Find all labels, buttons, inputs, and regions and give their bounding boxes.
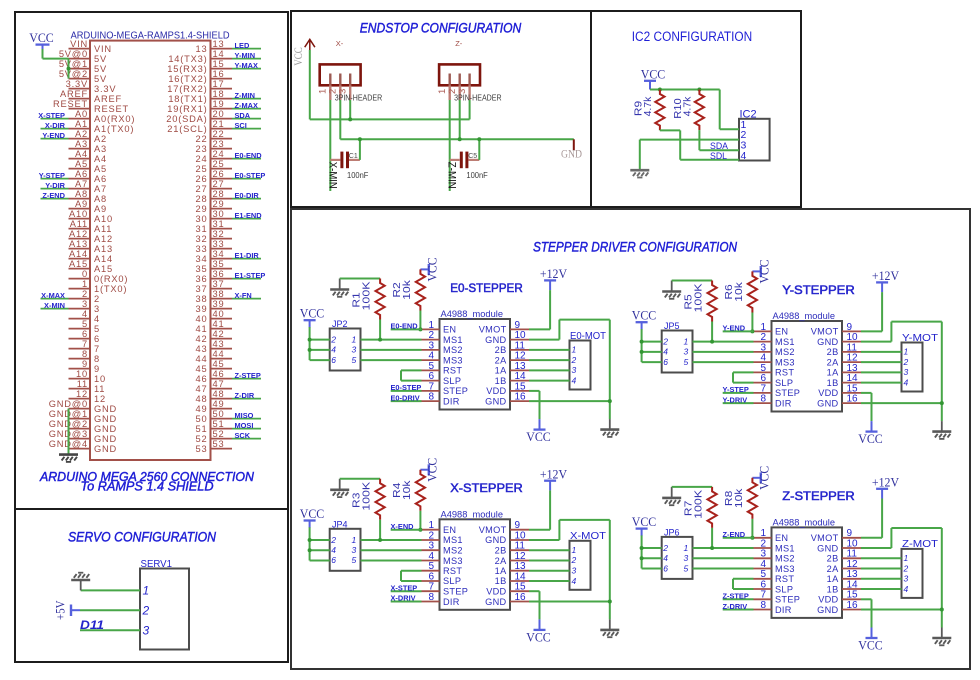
svg-text:1A: 1A bbox=[827, 574, 839, 584]
svg-text:GND: GND bbox=[485, 597, 506, 607]
svg-text:14: 14 bbox=[213, 49, 225, 59]
wire VCC to JP5 pin 4 bbox=[642, 351, 662, 353]
net label Y-STEP wire bbox=[723, 392, 754, 394]
svg-text:5V@2: 5V@2 bbox=[59, 69, 88, 79]
svg-text:MS2: MS2 bbox=[775, 554, 795, 564]
net label Z-END wire bbox=[723, 537, 754, 539]
svg-text:D11: D11 bbox=[80, 620, 104, 632]
pin 11 2B (Z-STEPPER) bbox=[842, 557, 861, 559]
svg-text:Y-MOT: Y-MOT bbox=[902, 333, 938, 344]
svg-text:VCC: VCC bbox=[526, 430, 551, 444]
pin 40 (right row 27) bbox=[211, 318, 233, 320]
svg-text:JP6: JP6 bbox=[664, 528, 680, 538]
wire pin14 to E0-MOT pin4 bbox=[529, 380, 570, 382]
svg-text:VCC: VCC bbox=[300, 307, 325, 321]
svg-text:34: 34 bbox=[213, 249, 225, 259]
svg-text:E0-STEP: E0-STEP bbox=[235, 171, 266, 180]
svg-text:A0: A0 bbox=[75, 109, 88, 119]
svg-text:E1-DIR: E1-DIR bbox=[235, 251, 260, 260]
wire JP4 pin 5 to MS3 bbox=[361, 560, 422, 562]
pin GND@1 (left row 37) bbox=[69, 418, 91, 420]
svg-text:A11: A11 bbox=[94, 224, 112, 234]
svg-text:25: 25 bbox=[196, 164, 208, 174]
svg-text:DIR: DIR bbox=[443, 396, 460, 406]
svg-text:52: 52 bbox=[196, 434, 208, 444]
svg-text:1B: 1B bbox=[495, 376, 507, 386]
svg-text:LED: LED bbox=[235, 41, 250, 50]
svg-text:11: 11 bbox=[94, 384, 105, 394]
wire pin12 to Z-MOT pin2 bbox=[861, 568, 902, 570]
net label Y-DIR wire bbox=[41, 188, 69, 190]
svg-text:11: 11 bbox=[77, 379, 88, 389]
pin 46 (right row 33) bbox=[211, 378, 233, 380]
svg-text:4: 4 bbox=[94, 314, 100, 324]
svg-text:5V: 5V bbox=[94, 54, 107, 64]
svg-text:VCC: VCC bbox=[858, 638, 883, 652]
svg-text:22: 22 bbox=[213, 129, 225, 139]
wire pin14 to Y-MOT pin4 bbox=[861, 382, 902, 384]
svg-text:35: 35 bbox=[196, 264, 208, 274]
svg-text:23: 23 bbox=[196, 144, 208, 154]
svg-text:GND: GND bbox=[817, 605, 838, 615]
wire VCC to JP5 pin 6 bbox=[642, 361, 662, 363]
svg-text:30: 30 bbox=[213, 209, 225, 219]
supply VCC above R2 bbox=[420, 264, 428, 275]
pin 14 1B (Z-STEPPER) bbox=[842, 588, 861, 590]
svg-text:A10: A10 bbox=[69, 209, 88, 219]
svg-text:53: 53 bbox=[196, 444, 208, 454]
svg-text:4: 4 bbox=[904, 377, 909, 387]
pin A3 (left row 10) bbox=[69, 148, 91, 150]
svg-text:34: 34 bbox=[196, 254, 208, 264]
wire +12V to VMOT bbox=[549, 290, 551, 329]
svg-text:A1: A1 bbox=[75, 119, 88, 129]
wire C1 right plate to GND net bbox=[359, 139, 361, 160]
svg-text:30: 30 bbox=[196, 214, 208, 224]
wire R10 to IC2 pin3 SDA bbox=[698, 130, 700, 150]
resistor R10 bbox=[695, 90, 704, 131]
pin 9 VMOT (X-STEPPER) bbox=[510, 529, 529, 531]
svg-text:4: 4 bbox=[904, 584, 909, 594]
svg-text:MOSI: MOSI bbox=[235, 421, 254, 430]
junction Z pin2 / GND bbox=[458, 137, 462, 141]
svg-text:4: 4 bbox=[82, 309, 88, 319]
supply VCC above R4 bbox=[420, 464, 428, 475]
svg-text:5: 5 bbox=[94, 324, 100, 334]
svg-text:A2: A2 bbox=[94, 134, 107, 144]
junction X pin3 / VCC bbox=[348, 117, 352, 121]
net label E1-STEP wire bbox=[232, 278, 261, 280]
pin 25 (right row 12) bbox=[211, 168, 233, 170]
svg-text:3: 3 bbox=[352, 545, 357, 555]
pin 50 (right row 37) bbox=[211, 418, 233, 420]
pin 6 SLP (Z-STEPPER) bbox=[754, 588, 772, 590]
wire JP4 pin 1 to MS1 bbox=[361, 539, 422, 541]
svg-text:29: 29 bbox=[213, 199, 225, 209]
svg-text:9: 9 bbox=[94, 364, 100, 374]
pin 20 (right row 7) bbox=[211, 118, 233, 120]
pin A10 (left row 17) bbox=[69, 218, 91, 220]
svg-text:MS3: MS3 bbox=[443, 355, 463, 365]
svg-text:A6: A6 bbox=[94, 174, 107, 184]
svg-text:33: 33 bbox=[213, 239, 225, 249]
svg-text:Y-DRIV: Y-DRIV bbox=[723, 395, 748, 404]
svg-text:42: 42 bbox=[213, 329, 225, 339]
pin 14 1B (E0-STEPPER) bbox=[510, 380, 529, 382]
svg-text:X-END: X-END bbox=[391, 522, 415, 531]
net label MOSI wire bbox=[232, 428, 261, 430]
wire GND net (endstop line2) bbox=[340, 138, 574, 140]
svg-text:X-STEP: X-STEP bbox=[391, 583, 418, 592]
svg-text:STEP: STEP bbox=[775, 595, 800, 605]
svg-text:100K: 100K bbox=[694, 489, 705, 518]
svg-text:41: 41 bbox=[196, 324, 208, 334]
wire JP6 pin 5 to MS3 bbox=[693, 568, 754, 570]
wire pin14 to Z-MOT pin4 bbox=[861, 588, 902, 590]
svg-text:MS1: MS1 bbox=[775, 337, 795, 347]
pin 12 2A (Y-STEPPER) bbox=[842, 361, 861, 363]
wire R7 to MS1 net bbox=[711, 528, 713, 548]
svg-text:MS2: MS2 bbox=[443, 345, 463, 355]
svg-text:8: 8 bbox=[428, 392, 434, 403]
svg-text:SCK: SCK bbox=[235, 431, 251, 440]
svg-text:Z-STEP: Z-STEP bbox=[235, 371, 261, 380]
pin 3 MS2 (Y-STEPPER) bbox=[754, 351, 772, 353]
wire JP4 pin 3 to MS2 bbox=[361, 549, 422, 551]
net label E0-DRIV wire bbox=[391, 400, 422, 402]
svg-text:1B: 1B bbox=[827, 378, 839, 388]
svg-text:RST: RST bbox=[775, 368, 794, 378]
svg-text:2B: 2B bbox=[495, 546, 507, 556]
ground (bottom-right of Y-STEPPER) bbox=[941, 421, 943, 432]
svg-text:2: 2 bbox=[142, 603, 150, 617]
ground (top-left of X-STEPPER) bbox=[339, 479, 341, 490]
svg-text:10: 10 bbox=[76, 369, 88, 379]
wire RST-SLP jumper (Y-STEPPER) bbox=[733, 371, 754, 373]
svg-text:1(TX0): 1(TX0) bbox=[94, 284, 127, 294]
pin GND@2 (left row 38) bbox=[69, 428, 91, 430]
pin 2 MS1 (E0-STEPPER) bbox=[422, 339, 440, 341]
svg-text:4: 4 bbox=[663, 553, 668, 563]
svg-text:VCC: VCC bbox=[632, 515, 657, 529]
net label Y-MAX wire bbox=[232, 68, 261, 70]
wire JP6 pin 3 to MS2 bbox=[693, 557, 754, 559]
svg-text:38: 38 bbox=[213, 289, 225, 299]
svg-text:VCC: VCC bbox=[641, 67, 666, 81]
svg-text:E0-DRIV: E0-DRIV bbox=[391, 393, 420, 402]
svg-text:51: 51 bbox=[213, 419, 225, 429]
svg-text:10k: 10k bbox=[734, 281, 745, 302]
svg-text:Z-END: Z-END bbox=[42, 191, 65, 200]
svg-text:A10: A10 bbox=[94, 214, 113, 224]
svg-text:VMOT: VMOT bbox=[479, 325, 507, 335]
svg-text:1B: 1B bbox=[495, 576, 507, 586]
net label LED wire bbox=[232, 48, 261, 50]
svg-text:49: 49 bbox=[213, 399, 225, 409]
pin 26 (right row 13) bbox=[211, 178, 233, 180]
svg-text:16: 16 bbox=[515, 392, 527, 403]
wire pin13 to Y-MOT pin3 bbox=[861, 371, 902, 373]
pin 11 2B (Y-STEPPER) bbox=[842, 351, 861, 353]
svg-text:1A: 1A bbox=[495, 566, 507, 576]
pin 21 (right row 8) bbox=[211, 128, 233, 130]
svg-text:EN: EN bbox=[443, 525, 456, 535]
pin 5V@1 (left row 2) bbox=[69, 68, 91, 70]
svg-text:A5: A5 bbox=[75, 159, 88, 169]
svg-text:6: 6 bbox=[331, 555, 336, 565]
wire pin14 to X-MOT pin4 bbox=[529, 580, 570, 582]
svg-text:RESET: RESET bbox=[94, 104, 129, 114]
svg-text:DIR: DIR bbox=[443, 597, 460, 607]
pin A12 (left row 19) bbox=[69, 238, 91, 240]
svg-text:9: 9 bbox=[82, 359, 88, 369]
wire VDD to VCC (Z-STEPPER) bbox=[861, 598, 872, 600]
svg-text:A12: A12 bbox=[94, 234, 113, 244]
pin 13 1A (Z-STEPPER) bbox=[842, 578, 861, 580]
pin 38 (right row 25) bbox=[211, 298, 233, 300]
svg-text:2: 2 bbox=[82, 289, 88, 299]
svg-text:5: 5 bbox=[82, 319, 88, 329]
svg-text:VCC: VCC bbox=[29, 30, 54, 45]
wire VCC to JP5 pin 2 bbox=[642, 341, 662, 343]
pin 11 (left row 34) bbox=[69, 388, 91, 390]
wire pin10 GND to ground rail (Z-STEPPER) bbox=[861, 547, 891, 549]
svg-text:5V@1: 5V@1 bbox=[59, 59, 88, 69]
svg-text:51: 51 bbox=[196, 424, 208, 434]
frame: arduino connection section bbox=[15, 12, 288, 509]
svg-text:47: 47 bbox=[196, 384, 208, 394]
svg-text:4: 4 bbox=[331, 545, 336, 555]
module A4988 outline (Z-STEPPER) bbox=[772, 527, 843, 618]
svg-text:39: 39 bbox=[196, 304, 208, 314]
svg-text:JP2: JP2 bbox=[332, 319, 348, 329]
svg-text:MISO: MISO bbox=[235, 411, 254, 420]
svg-text:SDA: SDA bbox=[710, 141, 728, 151]
svg-text:100K: 100K bbox=[694, 283, 705, 312]
svg-text:21(SCL): 21(SCL) bbox=[167, 124, 207, 134]
svg-text:24: 24 bbox=[213, 149, 225, 159]
svg-text:12: 12 bbox=[94, 394, 106, 404]
svg-text:13: 13 bbox=[196, 44, 208, 54]
pin A11 (left row 18) bbox=[69, 228, 91, 230]
pin 42 (right row 29) bbox=[211, 338, 233, 340]
pin 2 (left row 25) bbox=[69, 298, 91, 300]
svg-text:A2: A2 bbox=[75, 129, 88, 139]
pin A1 (left row 8) bbox=[69, 128, 91, 130]
net label X-DIR wire bbox=[41, 128, 69, 130]
svg-text:24: 24 bbox=[196, 154, 208, 164]
svg-text:Z-: Z- bbox=[455, 39, 463, 48]
svg-text:A9: A9 bbox=[75, 199, 88, 209]
svg-text:36: 36 bbox=[196, 274, 208, 284]
pin VIN (left row 0) bbox=[69, 48, 91, 50]
wire X- pin1 down bbox=[329, 100, 331, 191]
pin 14 (right row 1) bbox=[211, 58, 233, 60]
net label E0-END wire bbox=[391, 328, 422, 330]
supply VCC above R8 bbox=[752, 472, 760, 483]
svg-text:MS2: MS2 bbox=[775, 347, 795, 357]
svg-text:X-FN: X-FN bbox=[235, 291, 252, 300]
wire SERV1 pin3 D11 bbox=[80, 629, 140, 631]
ground (bottom-right of E0-STEPPER) bbox=[609, 419, 611, 430]
wire GND bus (left connector) bbox=[68, 409, 70, 455]
wire JP2 pin 1 to MS1 bbox=[361, 339, 422, 341]
pin 2 MS1 (Z-STEPPER) bbox=[754, 547, 772, 549]
wire JP5 pin 3 to MS2 bbox=[693, 351, 754, 353]
pin 10 GND (E0-STEPPER) bbox=[510, 339, 529, 341]
svg-text:1: 1 bbox=[143, 584, 150, 598]
junction GND rail (E0-STEPPER) bbox=[608, 399, 612, 403]
svg-text:A4988_module: A4988_module bbox=[773, 517, 836, 527]
module A4988 outline (X-STEPPER) bbox=[440, 519, 511, 610]
svg-text:15: 15 bbox=[213, 59, 225, 69]
svg-text:VDD: VDD bbox=[818, 595, 838, 605]
connector Z-MOT outline bbox=[902, 549, 923, 598]
supply VCC above R6 bbox=[752, 266, 760, 277]
svg-text:45: 45 bbox=[213, 359, 225, 369]
svg-text:7: 7 bbox=[82, 339, 88, 349]
wire +12V to VMOT bbox=[549, 490, 551, 529]
svg-text:21: 21 bbox=[213, 119, 225, 129]
svg-text:22: 22 bbox=[196, 134, 208, 144]
svg-text:X-MOT: X-MOT bbox=[570, 531, 606, 542]
wire pin16 GND (E0-STEPPER) bbox=[529, 400, 610, 402]
pin A2 (left row 9) bbox=[69, 138, 91, 140]
pin A4 (left row 11) bbox=[69, 158, 91, 160]
svg-text:MS3: MS3 bbox=[775, 357, 795, 367]
wire VCC to JP4 pin 2 bbox=[310, 539, 330, 541]
pin 14 1B (X-STEPPER) bbox=[510, 580, 529, 582]
svg-text:28: 28 bbox=[196, 194, 208, 204]
net label X-FN wire bbox=[232, 298, 261, 300]
svg-text:IC2 CONFIGURATION: IC2 CONFIGURATION bbox=[632, 29, 753, 44]
svg-text:MS3: MS3 bbox=[775, 564, 795, 574]
pin 14 1B (Y-STEPPER) bbox=[842, 382, 861, 384]
wire VCC rail (ic2) bbox=[650, 89, 720, 91]
svg-text:Y-STEP: Y-STEP bbox=[723, 385, 749, 394]
pin 9 VMOT (Y-STEPPER) bbox=[842, 330, 861, 332]
svg-text:1: 1 bbox=[904, 347, 909, 357]
net label Z-DRIV wire bbox=[723, 609, 754, 611]
svg-text:Z-DRIV: Z-DRIV bbox=[723, 602, 748, 611]
svg-text:+12V: +12V bbox=[540, 266, 568, 281]
svg-text:E0-END: E0-END bbox=[235, 151, 263, 160]
svg-text:2A: 2A bbox=[495, 355, 507, 365]
svg-text:VMOT: VMOT bbox=[811, 327, 839, 337]
svg-text:X-MIN: X-MIN bbox=[44, 301, 65, 310]
wire VCC to JP4 pin 6 bbox=[310, 560, 330, 562]
pin 39 (right row 26) bbox=[211, 308, 233, 310]
wire R9 to IC2 pin4 SDL bbox=[659, 129, 661, 131]
wire VCC bus (JP6) bbox=[641, 535, 643, 568]
pin 9 VMOT (Z-STEPPER) bbox=[842, 537, 861, 539]
svg-text:GND@0: GND@0 bbox=[49, 399, 88, 409]
svg-text:A11: A11 bbox=[70, 219, 88, 229]
module A4988 outline (Y-STEPPER) bbox=[772, 321, 843, 412]
svg-text:32: 32 bbox=[213, 229, 225, 239]
wire pin16 GND (X-STEPPER) bbox=[529, 601, 610, 603]
svg-text:Z-MAX: Z-MAX bbox=[235, 101, 258, 110]
wire pin12 to E0-MOT pin2 bbox=[529, 359, 570, 361]
wire pin10 GND to ground rail (E0-STEPPER) bbox=[529, 339, 559, 341]
svg-text:A4988_module: A4988_module bbox=[773, 311, 836, 321]
pin 35 (right row 22) bbox=[211, 268, 233, 270]
connector Y-MOT outline bbox=[902, 343, 923, 392]
svg-text:C5: C5 bbox=[468, 153, 477, 160]
svg-text:MS2: MS2 bbox=[443, 546, 463, 556]
pin 3 MS2 (E0-STEPPER) bbox=[422, 349, 440, 351]
pin 5 RST (Z-STEPPER) bbox=[754, 578, 772, 580]
svg-text:VMOT: VMOT bbox=[811, 533, 839, 543]
svg-text:RST: RST bbox=[443, 366, 462, 376]
svg-text:STEP: STEP bbox=[775, 388, 800, 398]
pin 37 (right row 24) bbox=[211, 288, 233, 290]
svg-text:E1-END: E1-END bbox=[235, 211, 263, 220]
net label X-END wire bbox=[391, 529, 422, 531]
svg-text:3: 3 bbox=[904, 367, 909, 377]
svg-text:37: 37 bbox=[196, 284, 208, 294]
wire RST-SLP jumper (X-STEPPER) bbox=[401, 570, 422, 572]
svg-text:+12V: +12V bbox=[872, 268, 900, 283]
svg-text:4: 4 bbox=[572, 375, 577, 385]
svg-text:3: 3 bbox=[572, 365, 577, 375]
svg-text:ENDSTOP CONFIGURATION: ENDSTOP CONFIGURATION bbox=[360, 20, 522, 35]
svg-text:1A: 1A bbox=[827, 368, 839, 378]
svg-text:SDA: SDA bbox=[235, 111, 251, 120]
pin 49 (right row 36) bbox=[211, 408, 233, 410]
svg-text:Y-END: Y-END bbox=[42, 131, 65, 140]
svg-text:0(RX0): 0(RX0) bbox=[94, 274, 128, 284]
wire JP6 pin 1 to MS1 bbox=[693, 547, 754, 549]
svg-text:27: 27 bbox=[213, 179, 225, 189]
svg-text:41: 41 bbox=[213, 319, 225, 329]
frame: endstop configuration section bbox=[291, 11, 591, 207]
wire pin12 to X-MOT pin2 bbox=[529, 560, 570, 562]
svg-text:A14: A14 bbox=[94, 254, 113, 264]
svg-text:E0-END: E0-END bbox=[391, 322, 419, 331]
svg-text:VCC: VCC bbox=[858, 432, 883, 446]
svg-text:4.7k: 4.7k bbox=[643, 96, 654, 117]
wire SERV1 pin1 to ground bbox=[81, 589, 140, 591]
svg-text:VMOT: VMOT bbox=[479, 525, 507, 535]
pin 32 (right row 19) bbox=[211, 238, 233, 240]
pin 4 MS3 (Z-STEPPER) bbox=[754, 568, 772, 570]
svg-text:X-STEP: X-STEP bbox=[38, 111, 65, 120]
wire RST-SLP jumper (E0-STEPPER) bbox=[401, 369, 422, 371]
svg-text:3PIN-HEADER: 3PIN-HEADER bbox=[335, 93, 383, 102]
pin 15 VDD (X-STEPPER) bbox=[510, 590, 529, 592]
frame: servo configuration section bbox=[15, 509, 288, 662]
svg-text:GND: GND bbox=[94, 434, 117, 444]
net label X-MAX wire bbox=[41, 298, 69, 300]
svg-text:GND: GND bbox=[94, 414, 117, 424]
net label E0-STEP wire bbox=[232, 178, 261, 180]
net label X-STEP wire bbox=[391, 590, 422, 592]
svg-text:MS3: MS3 bbox=[443, 556, 463, 566]
pin 11 2B (X-STEPPER) bbox=[510, 549, 529, 551]
wire Z- pin3 down bbox=[469, 100, 471, 119]
wire IC2 pin2 to ground bbox=[640, 139, 739, 141]
net label X-STEP wire bbox=[41, 118, 69, 120]
svg-text:48: 48 bbox=[196, 394, 208, 404]
net label E1-DIR wire bbox=[232, 258, 261, 260]
resistor R7 100K bbox=[708, 487, 717, 528]
svg-text:2A: 2A bbox=[495, 556, 507, 566]
svg-text:SERVO CONFIGURATION: SERVO CONFIGURATION bbox=[68, 529, 216, 544]
svg-text:2: 2 bbox=[571, 555, 577, 565]
svg-text:3PIN-HEADER: 3PIN-HEADER bbox=[454, 93, 502, 102]
pin 2 MS1 (X-STEPPER) bbox=[422, 539, 440, 541]
